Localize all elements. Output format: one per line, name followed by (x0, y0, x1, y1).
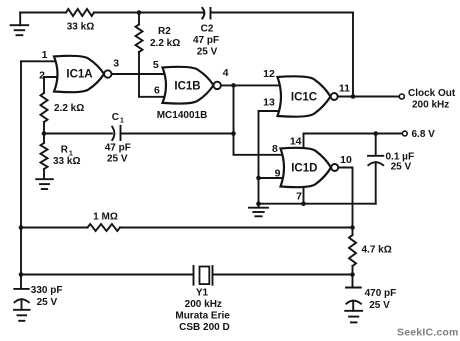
svg-text:11: 11 (339, 83, 350, 95)
svg-text:Y1: Y1 (196, 288, 209, 299)
svg-text:25 V: 25 V (197, 47, 218, 58)
svg-text:200 kHz: 200 kHz (185, 299, 222, 310)
svg-text:IC1C: IC1C (291, 91, 317, 103)
svg-text:25 V: 25 V (369, 300, 390, 311)
svg-text:12: 12 (263, 68, 275, 80)
svg-text:6: 6 (154, 84, 160, 96)
svg-text:25 V: 25 V (107, 154, 128, 165)
svg-text:14: 14 (290, 136, 302, 148)
svg-text:1 MΩ: 1 MΩ (93, 212, 118, 223)
svg-text:IC1A: IC1A (66, 69, 92, 81)
svg-text:5: 5 (153, 59, 159, 71)
svg-text:7: 7 (296, 190, 302, 202)
svg-text:Murata Erie: Murata Erie (175, 311, 230, 322)
svg-text:2: 2 (39, 70, 45, 82)
svg-text:47 pF: 47 pF (193, 35, 219, 46)
svg-text:CSB 200 D: CSB 200 D (179, 322, 230, 333)
svg-text:6.8 V: 6.8 V (412, 129, 436, 140)
svg-text:9: 9 (275, 168, 281, 180)
svg-text:4.7 kΩ: 4.7 kΩ (362, 245, 392, 256)
svg-text:C: C (112, 112, 119, 123)
svg-text:C2: C2 (201, 24, 214, 35)
svg-text:25 V: 25 V (37, 297, 58, 308)
svg-text:33 kΩ: 33 kΩ (67, 22, 94, 33)
svg-text:470 pF: 470 pF (365, 288, 397, 299)
svg-text:25 V: 25 V (391, 162, 412, 173)
svg-text:IC1B: IC1B (174, 80, 200, 92)
svg-text:3: 3 (113, 57, 119, 69)
svg-text:R: R (61, 145, 69, 156)
svg-text:R2: R2 (158, 26, 171, 37)
svg-text:1: 1 (42, 49, 48, 61)
svg-text:200 kHz: 200 kHz (412, 100, 449, 111)
svg-text:Clock Out: Clock Out (408, 88, 456, 99)
svg-text:SeekIC.com: SeekIC.com (397, 327, 459, 339)
svg-text:IC1D: IC1D (291, 163, 317, 175)
svg-text:1: 1 (120, 118, 124, 125)
svg-text:330 pF: 330 pF (31, 285, 63, 296)
svg-text:10: 10 (340, 154, 352, 166)
svg-text:2.2 kΩ: 2.2 kΩ (150, 38, 180, 49)
svg-text:13: 13 (263, 96, 275, 108)
svg-text:33 kΩ: 33 kΩ (53, 156, 80, 167)
svg-text:MC14001B: MC14001B (157, 110, 208, 121)
svg-text:4: 4 (223, 67, 229, 79)
svg-text:8: 8 (272, 143, 278, 155)
svg-text:47 pF: 47 pF (105, 143, 131, 154)
svg-text:2.2 kΩ: 2.2 kΩ (54, 103, 84, 114)
